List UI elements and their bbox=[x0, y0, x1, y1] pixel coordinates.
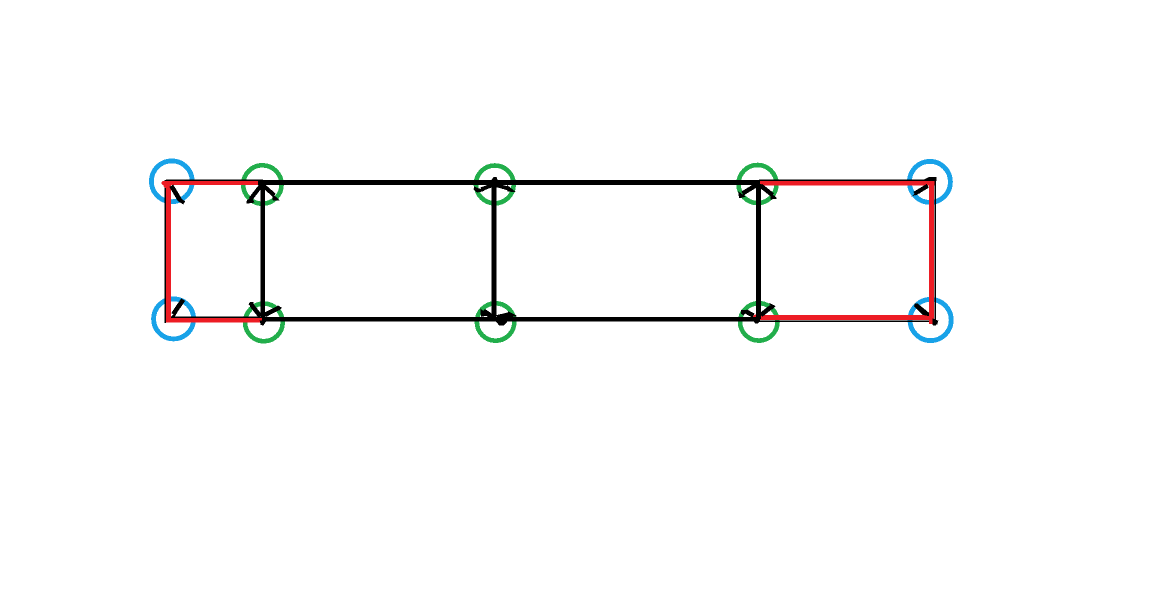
wire (thin black edge A-F left side) bbox=[164, 180, 166, 323]
node F (blue circle bottom-left) bbox=[154, 299, 194, 339]
arrowhead at node F bbox=[171, 300, 184, 318]
node (red dot at green bottom-right corner) bbox=[753, 314, 760, 321]
wire (red right edge of right square) bbox=[929, 182, 934, 325]
node I (green circle bottom right, x=759) bbox=[740, 303, 777, 340]
node B (green circle top, x=262) bbox=[243, 165, 281, 203]
wire (red top edge of left square) bbox=[164, 181, 261, 185]
wire (thick black top edge B-C-D) bbox=[258, 180, 760, 185]
node J (blue circle bottom-right) bbox=[910, 299, 951, 340]
wire (thick black vertical B-G) bbox=[260, 184, 265, 318]
arrowhead at node G (pointing down) bbox=[249, 302, 282, 326]
node E (blue circle top-right) bbox=[909, 161, 950, 202]
wire (red bottom edge of left square) bbox=[167, 318, 264, 322]
node G (green circle bottom, x=264) bbox=[245, 304, 283, 342]
arrowhead at node I (pointing down) bbox=[741, 303, 776, 323]
node D (green circle top right, x=757) bbox=[739, 165, 777, 203]
wire (thin black edge A-B along top-left) bbox=[166, 179, 263, 181]
arrowhead at node A bbox=[171, 186, 184, 203]
wire (thick black bottom edge G-H-I) bbox=[262, 317, 760, 322]
wire (red bottom edge of right square) bbox=[759, 315, 933, 320]
node A (blue circle top-left) bbox=[151, 161, 192, 202]
arrowhead at node B (pointing up) bbox=[247, 186, 281, 204]
arrowhead at node H (pointing down) bbox=[480, 309, 517, 326]
wire (red left edge of left square) bbox=[166, 181, 171, 322]
wire (thick black vertical C-H) bbox=[492, 182, 497, 318]
node C (green circle top middle, x=495) bbox=[476, 166, 514, 204]
wire (thick black vertical D-I) bbox=[756, 184, 761, 319]
arrowhead at node C (pointing up) bbox=[474, 177, 516, 193]
wire (red top edge of right square) bbox=[760, 181, 935, 186]
node H (green circle bottom middle, x=496) bbox=[477, 303, 514, 340]
arrowhead at node E bbox=[912, 177, 937, 197]
wire (thin black edge D-E along top-right) bbox=[759, 179, 936, 181]
wire (thin black edge F-G along bottom-left) bbox=[166, 316, 265, 318]
arrowhead at node J bbox=[914, 303, 938, 325]
wire (thin black edge I-J along bottom-right) bbox=[759, 320, 934, 322]
wire (thin black edge E-J right side) bbox=[934, 177, 936, 325]
arrowhead at node D (pointing up) bbox=[738, 185, 777, 200]
